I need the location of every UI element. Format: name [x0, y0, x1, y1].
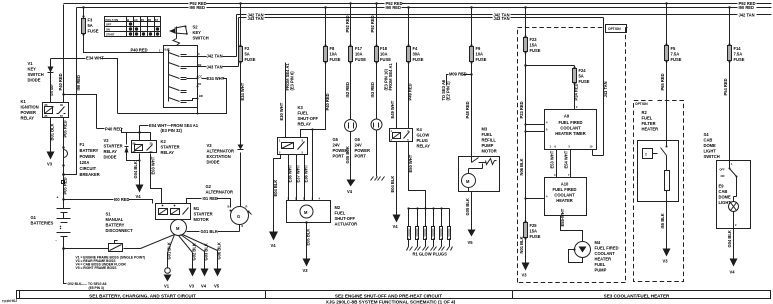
svg-text:P92 RED: P92 RED	[345, 15, 350, 32]
svg-text:PORT: PORT	[333, 154, 345, 159]
wire E30 WHT stub to K3 coil	[285, 63, 287, 138]
svg-text:DIODE: DIODE	[28, 78, 41, 83]
svg-text:V5: V5	[468, 240, 474, 245]
svg-text:F23: F23	[530, 37, 538, 42]
svg-text:SE3 COOLANT/FUEL HEATER: SE3 COOLANT/FUEL HEATER	[604, 293, 670, 298]
svg-text:120A: 120A	[80, 160, 90, 165]
svg-text:24V: 24V	[333, 143, 341, 148]
svg-text:RELAY: RELAY	[417, 144, 431, 149]
svg-text:RELAY: RELAY	[298, 122, 312, 127]
wire E04 WHT from SE4	[140, 126, 149, 133]
wire battery feed riser x63	[63, 5, 65, 200]
svg-text:LIGHT: LIGHT	[719, 200, 732, 205]
wire F24 to A9	[574, 84, 576, 110]
svg-text:PUMP: PUMP	[482, 143, 494, 148]
fuse F3 5A	[84, 8, 164, 53]
wire I90 riser x76	[64, 8, 77, 175]
svg-text:TX30745J: TX30745J	[2, 299, 18, 304]
svg-text:HEATER: HEATER	[642, 127, 659, 132]
svg-text:FUEL FIRED: FUEL FIRED	[558, 120, 582, 125]
svg-text:I52 RED: I52 RED	[345, 82, 350, 98]
svg-text:P40 RED: P40 RED	[58, 73, 63, 90]
svg-text:G02 BLK: G02 BLK	[191, 243, 196, 260]
wire starter B+ to alternator I01 RED	[187, 199, 231, 208]
svg-text:K1: K1	[21, 99, 27, 104]
svg-text:COOLANT: COOLANT	[554, 193, 575, 198]
svg-text:FUEL: FUEL	[298, 111, 309, 116]
wires K3 to M2	[289, 130, 313, 201]
svg-text:MOTOR: MOTOR	[482, 149, 497, 154]
svg-text:(E3 PIN 32): (E3 PIN 32)	[161, 128, 183, 133]
svg-text:M: M	[176, 226, 180, 231]
svg-text:J43 TAN: J43 TAN	[603, 81, 608, 97]
fuse F18 10A	[376, 4, 378, 47]
power port G5	[345, 120, 357, 132]
svg-text:CAB: CAB	[704, 138, 713, 143]
svg-text:RELAY: RELAY	[161, 150, 175, 155]
wire G01 BLK starter to alternator	[187, 225, 240, 232]
wire F25 to ground V3	[525, 239, 527, 263]
svg-text:P23 RED: P23 RED	[519, 101, 524, 118]
svg-text:ST: ST	[155, 18, 159, 22]
svg-text:J42 TAN: J42 TAN	[207, 54, 223, 59]
svg-text:G5: G5	[333, 137, 339, 142]
svg-text:RELAY: RELAY	[21, 116, 35, 121]
wire K2 coil to ground V4	[139, 161, 141, 185]
svg-text:E04 BLK: E04 BLK	[390, 176, 395, 193]
motor M1 circle	[171, 220, 187, 236]
svg-text:J43 TAN: J43 TAN	[494, 16, 510, 21]
svg-text:N01 BLK: N01 BLK	[519, 236, 524, 253]
svg-text:PLUG: PLUG	[417, 138, 428, 143]
svg-text:G04 BLK: G04 BLK	[727, 230, 732, 247]
svg-text:ALTERNATOR: ALTERNATOR	[206, 190, 234, 195]
svg-text:I90 RED: I90 RED	[76, 75, 81, 91]
svg-text:(E3 PIN 10): (E3 PIN 10)	[383, 68, 388, 90]
svg-text:J43 TAN: J43 TAN	[207, 65, 223, 70]
svg-text:B+: B+	[228, 205, 232, 209]
switch common bar and contacts	[169, 51, 180, 102]
svg-text:FUEL: FUEL	[595, 262, 606, 267]
wire K1 coil to ground	[50, 118, 52, 152]
ground V4 under K3	[269, 232, 278, 241]
wire G5 to ground V4	[350, 132, 352, 180]
svg-text:S4: S4	[704, 132, 710, 137]
svg-text:E34 WHT: E34 WHT	[86, 56, 104, 61]
svg-text:FUEL FIRED: FUEL FIRED	[552, 187, 576, 192]
svg-text:F4: F4	[413, 46, 419, 51]
fuse F5 7.5A	[666, 4, 668, 46]
svg-text:V3: V3	[189, 284, 195, 289]
svg-text:DISCONNECT: DISCONNECT	[106, 228, 134, 233]
wire F18 to G6	[376, 63, 378, 120]
svg-text:5A: 5A	[88, 23, 93, 28]
svg-text:POWER: POWER	[80, 154, 96, 159]
wire M2 to ground V3	[306, 223, 308, 259]
svg-text:(E5 PIN 3): (E5 PIN 3)	[89, 286, 104, 290]
wire bus P92 RED	[64, 3, 772, 5]
svg-text:BREAKER: BREAKER	[80, 172, 100, 177]
wire starter ground fan	[168, 235, 218, 253]
svg-text:OPTION: OPTION	[635, 102, 648, 106]
svg-text:K2: K2	[161, 139, 167, 144]
svg-text:E02 WHT: E02 WHT	[50, 84, 54, 96]
ground V3 under K1	[47, 152, 55, 160]
wire K4 coil to ground V4	[396, 142, 398, 215]
svg-text:FUSE: FUSE	[355, 57, 366, 62]
svg-text:XJG 290LC-8B SYSTEM FUNCTIONAL: XJG 290LC-8B SYSTEM FUNCTIONAL SCHEMATIC…	[326, 300, 456, 304]
svg-text:R: R	[246, 205, 248, 209]
svg-text:REFILL: REFILL	[482, 138, 497, 143]
fuse F2 5A	[240, 4, 242, 47]
wire E9 to ground V4	[733, 212, 735, 259]
svg-text:FUSE: FUSE	[330, 57, 341, 62]
ground V1 single point	[165, 268, 171, 274]
wire F2 to alternator R	[240, 63, 242, 207]
svg-text:F24: F24	[579, 68, 587, 73]
svg-text:FUEL: FUEL	[482, 132, 493, 137]
svg-text:HEATER: HEATER	[556, 198, 573, 203]
svg-text:V4: V4	[271, 243, 277, 248]
svg-text:E: E	[242, 224, 244, 228]
svg-text:COOLANT: COOLANT	[560, 126, 581, 131]
svg-text:K3: K3	[298, 105, 304, 110]
svg-text:AC: AC	[134, 18, 138, 22]
svg-text:(E3 PIN 6): (E3 PIN 6)	[290, 71, 295, 91]
svg-text:BR: BR	[199, 94, 203, 98]
svg-text:PUMP: PUMP	[595, 268, 607, 273]
svg-text:P05 RED: P05 RED	[63, 120, 68, 137]
svg-text:COOLANT: COOLANT	[595, 251, 616, 256]
ground V4 under K2	[136, 185, 144, 193]
wire K2 contact to starter solenoid	[151, 154, 162, 204]
svg-text:E55 WHT: E55 WHT	[560, 208, 565, 226]
motor M3 fuel refill pump box	[459, 157, 500, 192]
diode V2 starter relay diode loop	[127, 133, 140, 161]
svg-text:F1: F1	[80, 142, 86, 147]
svg-text:T: T	[645, 153, 647, 157]
lamp E9 cab dome light	[729, 202, 739, 212]
starter M1 solenoid box	[156, 204, 191, 220]
svg-text:10A: 10A	[355, 52, 363, 57]
svg-text:P65 RED: P65 RED	[660, 73, 665, 90]
ground V4 frame	[201, 269, 209, 277]
svg-text:STARTER: STARTER	[194, 212, 213, 217]
svg-text:R2: R2	[198, 63, 202, 67]
wire I00 RED battery positive to starter	[64, 200, 153, 204]
dashed box R2 fuel filter heater option	[634, 101, 684, 282]
svg-text:V4: V4	[393, 224, 399, 229]
wires A9 left pins	[526, 125, 545, 199]
heater A10 fuel fired coolant heater	[545, 178, 587, 216]
svg-text:I01 RED: I01 RED	[203, 196, 219, 201]
ground V3 frame	[189, 269, 197, 277]
svg-text:F3: F3	[88, 18, 94, 23]
wire F9 to M3	[471, 63, 473, 157]
svg-text:E9: E9	[719, 184, 725, 189]
svg-text:I55 BLK: I55 BLK	[660, 213, 665, 228]
relay K2 starter relay	[132, 141, 157, 153]
svg-text:I90 RED: I90 RED	[190, 5, 206, 10]
fuse F14 7.5A	[729, 8, 731, 46]
svg-text:ON: ON	[106, 28, 110, 32]
svg-text:M3: M3	[482, 127, 488, 132]
svg-text:E49 WHT: E49 WHT	[390, 100, 395, 118]
svg-text:I90 RED: I90 RED	[386, 5, 402, 10]
svg-text:E04 BLK: E04 BLK	[273, 180, 278, 197]
svg-text:P40 RED: P40 RED	[325, 93, 330, 110]
wire E49 WHT stub to K4 coil	[396, 63, 398, 129]
svg-text:J42 TAN: J42 TAN	[739, 12, 755, 17]
svg-text:STARTER: STARTER	[161, 145, 180, 150]
svg-text:10A: 10A	[476, 52, 484, 57]
svg-text:J43 TAN: J43 TAN	[248, 16, 264, 21]
svg-text:5A: 5A	[579, 74, 584, 79]
glow plug inner labels	[409, 229, 449, 237]
svg-text:G04 BLK: G04 BLK	[133, 161, 138, 178]
svg-text:GLOW: GLOW	[417, 133, 430, 138]
svg-text:I53 RED: I53 RED	[370, 82, 375, 98]
ground V5 frame	[214, 269, 222, 277]
svg-text:I00 RED: I00 RED	[114, 197, 130, 202]
svg-text:V1: V1	[28, 61, 34, 66]
svg-text:V4: V4	[730, 270, 736, 275]
svg-text:POS·T·ON: POS·T·ON	[106, 18, 119, 22]
fuse F4 30A	[408, 8, 410, 47]
wire F4 to K4 contact	[408, 63, 410, 129]
wire F14 to S4	[729, 62, 731, 161]
svg-text:E05 BLK: E05 BLK	[306, 229, 311, 246]
svg-text:F18: F18	[380, 46, 388, 51]
diode V1 key switch diode	[50, 59, 52, 103]
svg-text:RELAY: RELAY	[104, 149, 118, 154]
svg-text:V4: V4	[201, 284, 207, 289]
pin BR wire	[187, 99, 198, 114]
ground V3 under M2	[303, 259, 311, 267]
svg-text:S2: S2	[193, 25, 199, 30]
svg-text:I90 RED: I90 RED	[739, 5, 755, 10]
svg-text:30A: 30A	[413, 52, 421, 57]
svg-text:7.5A: 7.5A	[734, 52, 743, 57]
svg-text:+: +	[57, 196, 59, 200]
svg-text:FUSE: FUSE	[579, 79, 590, 84]
svg-text:STARTER: STARTER	[104, 144, 123, 149]
svg-text:POWER: POWER	[355, 148, 371, 153]
wire E34 WHT diode line	[51, 59, 118, 114]
svg-text:G01 BLK: G01 BLK	[166, 242, 171, 259]
svg-text:SHUT-OFF: SHUT-OFF	[335, 216, 356, 221]
svg-text:KEY: KEY	[193, 30, 202, 35]
switch S1 manual battery disconnect	[109, 244, 123, 252]
svg-text:G1: G1	[31, 215, 37, 220]
key symbol	[176, 27, 178, 39]
glow plugs R1 resistors	[409, 209, 450, 227]
fuse F9 10A	[471, 8, 473, 47]
power port G6	[371, 119, 382, 130]
svg-text:R2: R2	[642, 110, 648, 115]
svg-text:P48 RED: P48 RED	[465, 101, 470, 118]
svg-text:P92 RED: P92 RED	[370, 15, 375, 32]
svg-text:FUSE: FUSE	[734, 57, 745, 62]
wire F17 to G5	[350, 63, 352, 120]
switch S4 cab dome light box	[717, 161, 751, 229]
pump M4 fuel fired coolant heater fuel pump	[575, 242, 591, 258]
actuator M2 fuel shut-off	[287, 201, 331, 223]
wire M3 to ground V5	[469, 192, 472, 230]
svg-text:ALTERNATOR: ALTERNATOR	[207, 149, 235, 154]
svg-text:FUEL: FUEL	[335, 211, 346, 216]
svg-text:M2: M2	[335, 205, 341, 210]
junction dots on buses	[239, 2, 241, 4]
svg-text:SHUT-OFF: SHUT-OFF	[298, 116, 319, 121]
relay K1	[43, 103, 69, 118]
svg-text:10A: 10A	[330, 52, 338, 57]
svg-text:FUSE: FUSE	[245, 57, 256, 62]
svg-text:ACC: ACC	[197, 74, 203, 78]
svg-text:M1: M1	[194, 206, 200, 211]
svg-text:FUSE: FUSE	[476, 57, 487, 62]
svg-text:V3: V3	[522, 273, 528, 278]
svg-text:-: -	[56, 239, 57, 243]
svg-text:P54 RED: P54 RED	[723, 78, 728, 95]
fuse F17 10A	[350, 4, 352, 47]
svg-text:R1: R1	[198, 82, 202, 86]
svg-text:START: START	[106, 33, 115, 37]
svg-text:V1: V1	[164, 284, 170, 289]
svg-text:C: C	[198, 52, 200, 56]
svg-text:FUSE: FUSE	[413, 57, 424, 62]
svg-text:G05 BLK: G05 BLK	[345, 146, 350, 163]
svg-text:F5: F5	[671, 46, 677, 51]
svg-text:G03 BLK: G03 BLK	[203, 243, 208, 260]
pin ACC wire E34 WHT loop	[118, 79, 227, 114]
wire bus J42 TAN	[237, 15, 772, 57]
svg-text:V3: V3	[303, 268, 309, 273]
timer A9 fuel fired coolant heater timer	[545, 110, 597, 150]
svg-text:G06 BLK: G06 BLK	[216, 242, 221, 259]
svg-text:G6: G6	[355, 137, 361, 142]
title bar	[17, 291, 771, 299]
alternator G2 circle	[231, 207, 249, 225]
wire bus J43 TAN	[239, 18, 604, 156]
svg-text:B01 BLK: B01 BLK	[49, 123, 54, 140]
wire bus I90 RED	[77, 7, 772, 9]
wire A10 to pump M4	[561, 216, 583, 242]
svg-text:S1: S1	[106, 212, 112, 217]
svg-text:OFF: OFF	[106, 23, 112, 27]
svg-text:(E2 PIN 2): (E2 PIN 2)	[446, 81, 451, 101]
wire K3 ground E04 BLK	[274, 155, 281, 232]
svg-text:FUSE: FUSE	[530, 234, 541, 239]
svg-text:G05 BLK: G05 BLK	[465, 198, 470, 215]
svg-text:E53 WHT: E53 WHT	[550, 150, 555, 168]
svg-text:P05 RED: P05 RED	[63, 177, 68, 194]
svg-text:HEATER TIMER: HEATER TIMER	[555, 131, 585, 136]
pin R2 wire to J43 TAN	[187, 66, 239, 68]
svg-text:M: M	[304, 210, 308, 215]
svg-text:V4: V4	[347, 189, 353, 194]
pin R1	[197, 86, 199, 88]
svg-text:DOME: DOME	[719, 195, 732, 200]
svg-text:LIGHT: LIGHT	[704, 149, 717, 154]
wire F23 down branch	[526, 53, 575, 125]
wire battery negative rail	[64, 235, 175, 249]
relay K4 glow plug relay	[390, 129, 413, 142]
svg-text:V5 = RIGHT FRAME BOSS: V5 = RIGHT FRAME BOSS	[76, 266, 118, 270]
svg-text:CAB: CAB	[719, 189, 728, 194]
svg-text:A9: A9	[564, 114, 570, 119]
svg-text:E54 WHT: E54 WHT	[564, 150, 569, 168]
svg-text:M: M	[466, 179, 470, 184]
svg-text:V3: V3	[47, 162, 53, 167]
svg-text:F17: F17	[355, 46, 363, 51]
svg-text:A10: A10	[561, 182, 569, 187]
table key switch positions	[105, 17, 161, 37]
svg-text:BATTERY: BATTERY	[80, 148, 99, 153]
breaker F1 path with bump	[64, 118, 68, 200]
svg-text:BATTERIES: BATTERIES	[31, 221, 54, 226]
svg-text:K4: K4	[417, 127, 423, 132]
svg-text:IGNITION: IGNITION	[21, 105, 39, 110]
svg-text:SE1 BATTERY, CHARGING, AND STA: SE1 BATTERY, CHARGING, AND START CIRCUIT	[89, 293, 196, 298]
svg-text:PORT: PORT	[355, 154, 367, 159]
svg-text:SE2 ENGINE SHUT-OFF AND PRE-HE: SE2 ENGINE SHUT-OFF AND PRE-HEAT CIRCUIT	[335, 293, 442, 298]
wire K4 contact to glow plugs E50 WHT	[409, 142, 426, 209]
svg-text:V3: V3	[207, 143, 213, 148]
relay K3 fuel shut-off relay	[278, 138, 308, 155]
svg-text:15A: 15A	[530, 229, 538, 234]
svg-text:FILTER: FILTER	[642, 121, 656, 126]
svg-text:V3: V3	[663, 259, 669, 264]
svg-text:FUSE: FUSE	[530, 48, 541, 53]
svg-text:FUEL: FUEL	[642, 116, 653, 121]
svg-text:BATTERY: BATTERY	[106, 223, 125, 228]
wire R2 to ground V3	[666, 202, 668, 249]
svg-text:E50 WHT: E50 WHT	[408, 154, 413, 172]
ground V5 under M3	[468, 230, 476, 237]
svg-text:M09 RED: M09 RED	[449, 72, 467, 77]
svg-text:P40 RED: P40 RED	[131, 47, 148, 52]
svg-text:P24 RED: P24 RED	[574, 83, 579, 100]
svg-text:DIODE: DIODE	[207, 160, 220, 165]
svg-text:7.5A: 7.5A	[671, 52, 680, 57]
chassis ground under G6	[371, 177, 385, 181]
svg-text:V4: V4	[136, 194, 142, 199]
svg-text:G2: G2	[206, 184, 212, 189]
svg-text:CIRCUIT: CIRCUIT	[80, 166, 97, 171]
svg-text:G: G	[237, 214, 240, 219]
svg-text:OPTION: OPTION	[608, 27, 621, 31]
svg-text:R1 GLOW PLUGS: R1 GLOW PLUGS	[413, 252, 448, 257]
diode V3 alternator excitation	[238, 145, 244, 150]
svg-text:E36 WHT: E36 WHT	[304, 164, 309, 182]
svg-text:MOTOR: MOTOR	[194, 217, 209, 222]
fuse F23 15A	[525, 8, 527, 38]
svg-text:EXCITATION: EXCITATION	[207, 154, 231, 159]
svg-text:B: B	[127, 18, 129, 22]
svg-text:SWITCH: SWITCH	[28, 72, 44, 77]
svg-text:OFF: OFF	[720, 168, 726, 172]
svg-text:E30 WHT: E30 WHT	[279, 102, 284, 120]
svg-text:15A: 15A	[530, 43, 538, 48]
svg-text:F25: F25	[530, 223, 538, 228]
svg-text:M4: M4	[595, 240, 601, 245]
svg-text:ACTUATOR: ACTUATOR	[335, 222, 358, 227]
svg-text:24V: 24V	[355, 143, 363, 148]
svg-text:R2: R2	[148, 18, 152, 22]
switch S2 key switch box	[164, 46, 198, 108]
pin C wire to J42 TAN	[187, 56, 237, 58]
